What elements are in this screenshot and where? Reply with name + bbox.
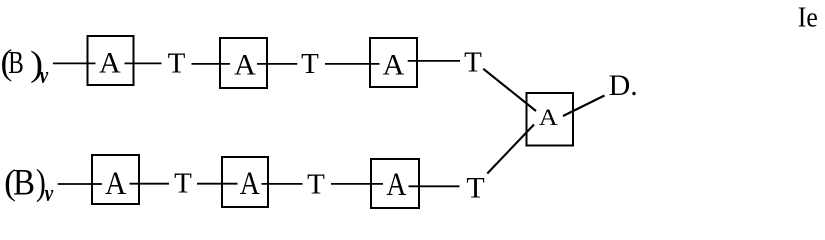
node T5 <box>307 169 325 201</box>
wire A5 to T5 <box>262 183 303 185</box>
box A3 <box>370 38 417 87</box>
svg-text:A: A <box>105 166 126 202</box>
formula label Ie <box>798 1 818 33</box>
wire T3 to central A (diagonal) <box>483 69 536 111</box>
wire A2 to T2 <box>257 63 297 65</box>
svg-text:T: T <box>301 48 319 80</box>
wire T5 to A6 <box>331 183 383 185</box>
box A6 <box>371 159 419 208</box>
wire central A to D (diagonal) <box>563 96 605 117</box>
svg-text:T: T <box>307 169 325 201</box>
svg-text:D.: D. <box>609 69 638 102</box>
node (B)v top <box>1 42 49 89</box>
svg-text:Ie: Ie <box>798 1 818 33</box>
wire A3 to T3 <box>408 60 460 62</box>
box A2 <box>220 38 267 88</box>
wire (B)v to A4 <box>58 183 102 185</box>
svg-text:v: v <box>45 181 54 207</box>
svg-text:A: A <box>234 48 256 81</box>
wire T6 to central A (diagonal) <box>487 125 534 174</box>
node T6 <box>466 171 484 204</box>
node T1 <box>168 48 186 80</box>
svg-text:A: A <box>240 166 260 202</box>
wire A6 to T6 <box>409 185 460 187</box>
node T4 <box>174 168 192 200</box>
svg-text:T: T <box>168 48 186 80</box>
svg-text:T: T <box>466 171 484 204</box>
svg-text:A: A <box>386 167 406 203</box>
svg-text:v: v <box>40 63 49 89</box>
wire T4 to A5 <box>197 183 238 185</box>
svg-text:B: B <box>8 44 23 80</box>
svg-text:A: A <box>539 105 558 130</box>
svg-text:A: A <box>99 47 121 80</box>
svg-text:T: T <box>174 168 192 200</box>
box A central <box>527 93 574 146</box>
node (B)v bottom <box>4 162 53 208</box>
box A4 <box>92 155 139 204</box>
wire A1 to T1 <box>125 62 162 64</box>
svg-text:B: B <box>13 162 35 203</box>
svg-text:T: T <box>464 47 482 79</box>
wire A4 to T4 <box>130 183 170 185</box>
box A5 <box>222 157 268 207</box>
box A1 <box>88 36 134 85</box>
wire T2 to A3 <box>325 63 380 65</box>
node T2 <box>301 48 319 80</box>
svg-text:A: A <box>383 48 405 81</box>
wire T1 to A2 <box>192 63 231 65</box>
node D. <box>609 69 638 102</box>
node T3 <box>464 47 482 79</box>
wire (B)v to A1 <box>53 62 96 64</box>
